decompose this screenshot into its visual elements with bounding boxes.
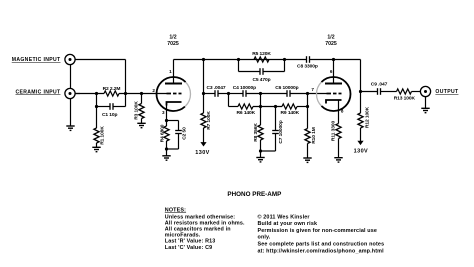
resistor R8 [258, 107, 263, 152]
node junction U2 plate output node [359, 90, 362, 93]
wire C4 to C6 [246, 93, 287, 95]
svg-text:R8 356K: R8 356K [253, 123, 259, 142]
svg-text:R1 100K: R1 100K [100, 126, 106, 145]
ground under R8 C7 [256, 157, 264, 159]
arrow to 130V supply under R12 [357, 141, 363, 145]
svg-text:MAGNETIC INPUT: MAGNETIC INPUT [12, 57, 61, 63]
node junction rail at R5 left [237, 58, 240, 61]
node junction at C7 tap [274, 105, 277, 108]
node junction rail at U2 riser [332, 58, 335, 61]
svg-text:C4 10000p: C4 10000p [233, 85, 256, 91]
wire R2 to node A and grid of U1 [119, 93, 167, 95]
ground under R11 [334, 157, 342, 159]
svg-text:1/2: 1/2 [169, 34, 176, 40]
wire R8 to ground [260, 151, 262, 158]
svg-text:C5 470p: C5 470p [252, 77, 270, 83]
svg-text:All capacitors marked in: All capacitors marked in [165, 227, 231, 233]
jack J2 ceramic input [65, 88, 80, 98]
wire magnetic input to node A [75, 60, 126, 107]
ground under output jack [421, 107, 429, 109]
U2 grid [327, 93, 342, 95]
jack J1 magnetic input [65, 54, 75, 64]
svg-text:1/2: 1/2 [327, 34, 334, 40]
wire rail down to U1 plate node [203, 60, 205, 94]
wire R6 to R9 [253, 106, 282, 108]
svg-text:C7 10000p: C7 10000p [278, 120, 284, 143]
capacitor C4 [242, 90, 244, 97]
node junction at C3 output [227, 92, 230, 95]
svg-text:Build at your own risk: Build at your own risk [258, 221, 318, 227]
resistor R11 [336, 116, 341, 158]
svg-text:1: 1 [169, 69, 172, 74]
svg-text:All resistors marked in ohms.: All resistors marked in ohms. [165, 220, 245, 226]
triode U2 1/2 7025 envelope [317, 77, 351, 111]
wire B+ rail [174, 60, 361, 92]
label 1/2 7025 for U1 [167, 34, 179, 47]
svg-text:C6 10000p: C6 10000p [275, 85, 298, 91]
resistor R7 [201, 94, 206, 143]
svg-text:C1 10p: C1 10p [102, 112, 118, 118]
wire jack shield chain [70, 65, 72, 89]
wire output jack to ground [425, 97, 427, 109]
svg-text:Last 'C' Value: C9: Last 'C' Value: C9 [165, 245, 213, 251]
node junction between C4 and C6 [259, 92, 262, 95]
notes block left column [165, 207, 245, 250]
svg-text:R11 3300: R11 3300 [330, 121, 336, 142]
svg-text:C9 .047: C9 .047 [371, 82, 388, 88]
svg-text:only.: only. [258, 235, 271, 241]
svg-text:CERAMIC INPUT: CERAMIC INPUT [15, 89, 61, 95]
svg-text:C3 .0047: C3 .0047 [206, 85, 225, 91]
U1 cathode [167, 102, 182, 121]
node junction at R3 [140, 92, 143, 95]
svg-text:Unless marked otherwise:: Unless marked otherwise: [165, 214, 235, 220]
svg-text:7: 7 [311, 87, 314, 92]
wire branch down to C1 [96, 94, 98, 107]
capacitor C7 [261, 107, 279, 152]
node junction grid line crosses row2 [306, 105, 309, 108]
svg-text:8: 8 [341, 109, 344, 114]
resistor R4 [164, 121, 169, 150]
svg-text:Permission is given for non-co: Permission is given for non-commercial u… [258, 228, 378, 234]
wire R4 to ground [166, 149, 168, 156]
svg-text:6: 6 [330, 69, 333, 74]
capacitor C3 [204, 90, 229, 97]
node junction at U1 cathode [165, 119, 168, 122]
svg-text:NOTES:: NOTES: [165, 207, 186, 213]
U1 grid [167, 93, 182, 95]
capacitor C1 [97, 103, 126, 110]
triode U1 1/2 7025 envelope [156, 77, 190, 111]
node A junction right of R2 [124, 92, 127, 95]
resistor R3 [139, 94, 144, 124]
node junction between R6 and R9 [259, 105, 262, 108]
wire R13 to output jack [412, 91, 421, 93]
svg-text:OUTPUT: OUTPUT [435, 89, 459, 95]
node junction at C1 branch [95, 105, 98, 108]
svg-text:R12 100K: R12 100K [364, 106, 370, 128]
svg-text:C8 3300p: C8 3300p [297, 64, 318, 70]
node junction rail at R7 [202, 58, 205, 61]
node junction U1 plate node [202, 92, 205, 95]
U2 cathode [326, 100, 342, 116]
svg-text:R9 140K: R9 140K [280, 110, 299, 116]
ground under R10 [303, 157, 311, 159]
wire link C4-C6 node to R6-R9 node [260, 94, 262, 107]
capacitor C6 [286, 90, 288, 97]
wire C9 to R13 [381, 91, 397, 93]
svg-text:© 2011 Wes Kinsler: © 2011 Wes Kinsler [258, 213, 311, 220]
wire C3 to C4 [229, 93, 244, 95]
svg-text:R4 6800: R4 6800 [160, 124, 166, 142]
resistor R2 [104, 91, 119, 96]
svg-text:R3 100K: R3 100K [134, 101, 140, 120]
svg-text:R7 100K: R7 100K [206, 111, 212, 130]
U1 plate [165, 83, 182, 85]
resistor R10 [305, 94, 310, 159]
node junction left of R2 [95, 92, 98, 95]
resistor R6 [238, 104, 253, 109]
resistor R13 [397, 89, 412, 94]
U2 plate [325, 83, 342, 85]
resistor R9 [282, 104, 297, 109]
capacitor C8 [306, 56, 308, 63]
node junction rail at R5 right [283, 58, 286, 61]
svg-text:R2 2.2M: R2 2.2M [103, 86, 121, 92]
svg-text:PHONO PRE-AMP: PHONO PRE-AMP [227, 191, 281, 198]
arrow to 130V supply under R7 [200, 142, 206, 146]
wire C6 to grid of U2 [290, 93, 327, 95]
wire ceramic jack to ground [70, 99, 72, 126]
ground under R3 [137, 122, 145, 124]
svg-text:See complete parts list and co: See complete parts list and construction… [258, 242, 385, 248]
capacitor C2 bypass loop [167, 121, 182, 150]
wire R9 to U2 grid node [297, 106, 308, 108]
svg-text:7025: 7025 [325, 41, 337, 47]
svg-text:R5 120K: R5 120K [252, 51, 271, 57]
U2 plate riser wire to rail [333, 60, 335, 84]
notes block right column [258, 213, 385, 254]
node junction at U2 grid [306, 92, 309, 95]
svg-text:130V: 130V [195, 150, 209, 156]
wire feedback row from C3 node [229, 94, 239, 107]
ground under input jacks [66, 125, 74, 127]
svg-text:R6 140K: R6 140K [236, 110, 255, 116]
svg-text:microFarads.: microFarads. [165, 233, 201, 239]
label 1/2 7025 for U2 [325, 34, 337, 47]
svg-text:130V: 130V [354, 148, 368, 154]
resistor R12 [358, 92, 363, 142]
resistor R5 [254, 57, 269, 62]
node junction at R8 C7 bottom [259, 149, 262, 152]
svg-text:R10 1M: R10 1M [311, 127, 317, 144]
svg-text:Last 'R' Value: R13: Last 'R' Value: R13 [165, 239, 216, 245]
jack J3 output [420, 86, 430, 96]
svg-text:R13 100K: R13 100K [394, 95, 416, 101]
U1 plate riser wire to rail [173, 60, 175, 84]
svg-text:2: 2 [152, 88, 155, 93]
svg-text:7025: 7025 [167, 41, 179, 47]
svg-text:C2 50: C2 50 [182, 127, 188, 140]
node junction at R4 bottom [165, 147, 168, 150]
ground under R1 [92, 146, 100, 148]
svg-text:3: 3 [162, 110, 165, 115]
capacitor C5 loop [239, 60, 285, 75]
capacitor C9 [361, 88, 381, 95]
wire ceramic input to R2 [75, 93, 104, 95]
resistor R1 [94, 107, 99, 148]
ground under R4 C2 [162, 155, 170, 157]
svg-text:at: http://wkinsler.com/radios: at: http://wkinsler.com/radios/phono_amp… [258, 248, 385, 254]
